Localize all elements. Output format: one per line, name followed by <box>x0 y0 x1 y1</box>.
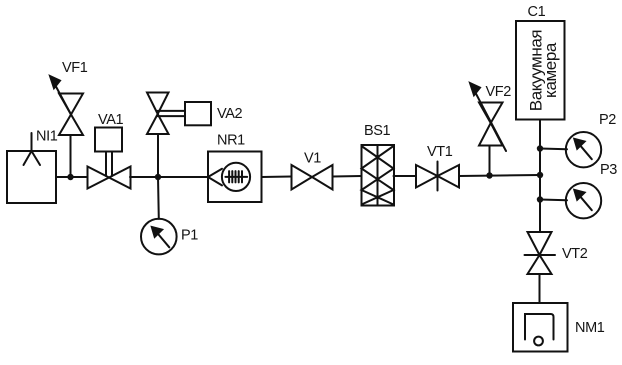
svg-text:P1: P1 <box>181 228 198 244</box>
svg-text:VT1: VT1 <box>427 144 453 160</box>
svg-text:VF2: VF2 <box>486 84 512 100</box>
svg-text:NI1: NI1 <box>36 129 58 145</box>
svg-text:NR1: NR1 <box>217 133 245 149</box>
svg-text:VA1: VA1 <box>98 112 123 128</box>
svg-text:камера: камера <box>541 42 560 98</box>
svg-text:NM1: NM1 <box>575 320 605 336</box>
svg-text:P2: P2 <box>599 112 616 128</box>
svg-text:V1: V1 <box>304 151 321 167</box>
svg-text:C1: C1 <box>528 4 546 20</box>
svg-text:VT2: VT2 <box>562 246 588 262</box>
svg-text:VF1: VF1 <box>62 60 88 76</box>
svg-text:P3: P3 <box>600 162 617 178</box>
svg-text:BS1: BS1 <box>364 123 391 139</box>
svg-text:VA2: VA2 <box>217 106 242 122</box>
